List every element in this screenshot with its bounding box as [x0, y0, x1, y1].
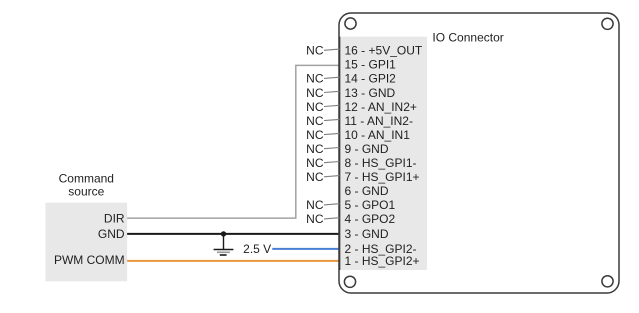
NC stub pin 14 — [306, 72, 339, 86]
wire GND to pin 3 (black) — [127, 233, 339, 235]
svg-text:12 - AN_IN2+: 12 - AN_IN2+ — [345, 100, 417, 114]
svg-text:1 - HS_GPI2+: 1 - HS_GPI2+ — [345, 254, 420, 268]
mounting hole bottom-right — [602, 276, 613, 287]
svg-text:NC: NC — [306, 142, 324, 156]
svg-text:NC: NC — [306, 170, 324, 184]
svg-text:15 - GPI1: 15 - GPI1 — [345, 58, 397, 72]
svg-text:DIR: DIR — [104, 211, 125, 225]
svg-text:NC: NC — [306, 100, 324, 114]
mounting hole bottom-left — [344, 276, 355, 287]
wire 2.5V to pin 2 (blue) — [272, 248, 339, 250]
IO connector outline — [339, 13, 619, 293]
svg-text:7 - HS_GPI1+: 7 - HS_GPI1+ — [345, 170, 420, 184]
label: Command source — [59, 172, 114, 199]
svg-text:11 - AN_IN2-: 11 - AN_IN2- — [345, 114, 413, 128]
svg-text:NC: NC — [306, 156, 324, 170]
mounting hole top-left — [345, 18, 356, 29]
NC stub pin 16 — [306, 44, 339, 58]
svg-text:GND: GND — [98, 227, 125, 241]
svg-text:NC: NC — [306, 212, 324, 226]
svg-text:9 - GND: 9 - GND — [345, 142, 389, 156]
NC stub pin 12 — [306, 100, 339, 114]
svg-text:PWM COMM: PWM COMM — [54, 253, 125, 267]
command source box — [45, 203, 127, 282]
svg-text:NC: NC — [306, 44, 324, 58]
IO connector left edge over pin block — [339, 37, 341, 270]
NC stub pin 7 — [306, 170, 339, 184]
ground — [214, 234, 234, 255]
svg-text:16 - +5V_OUT: 16 - +5V_OUT — [345, 44, 423, 58]
wire DIR to pin 15 GPI1 (gray) — [127, 65, 339, 218]
NC stub pin 9 — [306, 142, 339, 156]
NC stub pin 8 — [306, 156, 339, 170]
NC stub pin 13 — [306, 86, 339, 100]
NC stub pin 5 — [306, 198, 339, 212]
svg-text:10 - AN_IN1: 10 - AN_IN1 — [345, 128, 411, 142]
svg-text:3 - GND: 3 - GND — [345, 227, 389, 241]
svg-text:14 - GPI2: 14 - GPI2 — [345, 72, 397, 86]
svg-text:5 - GPO1: 5 - GPO1 — [345, 198, 396, 212]
mounting hole top-right — [602, 18, 613, 29]
svg-text:source: source — [68, 184, 104, 198]
pin header block — [340, 37, 427, 270]
svg-text:NC: NC — [306, 128, 324, 142]
svg-text:NC: NC — [306, 72, 324, 86]
svg-text:2.5 V: 2.5 V — [243, 242, 271, 256]
wire PWM COMM to pin 1 (orange) — [127, 260, 339, 262]
NC stub pin 11 — [306, 114, 339, 128]
svg-text:NC: NC — [306, 114, 324, 128]
junction dot — [221, 231, 226, 236]
svg-text:NC: NC — [306, 198, 324, 212]
svg-text:NC: NC — [306, 86, 324, 100]
NC stub pin 4 — [306, 212, 339, 226]
svg-text:4 - GPO2: 4 - GPO2 — [345, 212, 396, 226]
svg-text:IO Connector: IO Connector — [432, 31, 503, 45]
NC stub pin 10 — [306, 128, 339, 142]
svg-text:6 - GND: 6 - GND — [345, 184, 389, 198]
svg-text:8 - HS_GPI1-: 8 - HS_GPI1- — [345, 156, 417, 170]
svg-text:13 - GND: 13 - GND — [345, 86, 396, 100]
